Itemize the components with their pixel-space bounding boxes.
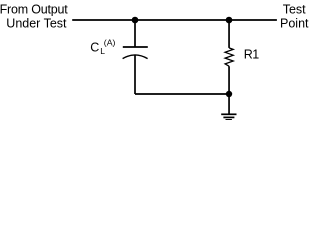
svg-text:From Output: From Output <box>0 2 68 16</box>
svg-text:(A): (A) <box>104 38 116 48</box>
svg-text:C: C <box>90 41 99 55</box>
svg-text:R1: R1 <box>244 48 260 62</box>
svg-text:Under Test: Under Test <box>6 17 67 31</box>
svg-text:Test: Test <box>283 3 306 17</box>
svg-text:Point: Point <box>280 17 309 31</box>
